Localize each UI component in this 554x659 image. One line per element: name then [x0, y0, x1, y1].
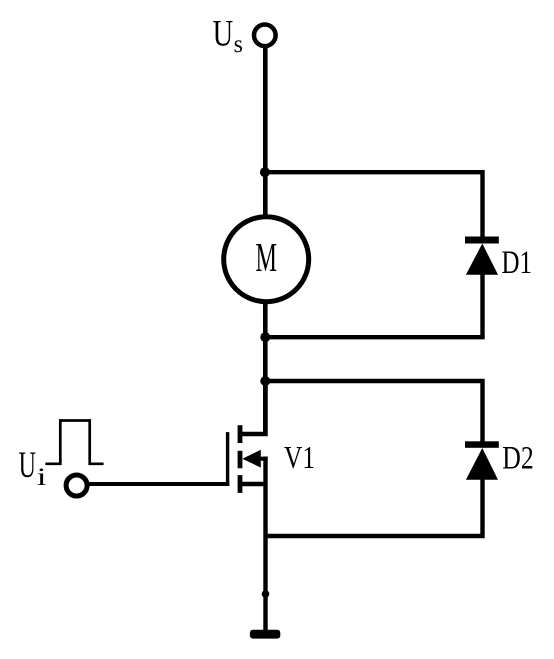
svg-text:i: i — [37, 462, 47, 491]
svg-text:s: s — [234, 31, 243, 58]
svg-text:M: M — [256, 234, 278, 280]
svg-text:D2: D2 — [502, 441, 534, 477]
svg-text:U: U — [19, 444, 36, 485]
svg-text:D1: D1 — [502, 245, 533, 281]
svg-text:V1: V1 — [284, 439, 315, 475]
svg-text:U: U — [213, 13, 234, 54]
